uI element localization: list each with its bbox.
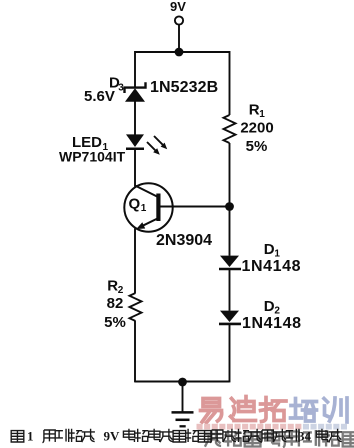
node: base junction dot on right rail (225, 202, 234, 211)
resistor R1 zigzag (224, 115, 236, 143)
wire: ground stem (182, 382, 184, 412)
svg-text:82: 82 (107, 295, 124, 312)
diode D1 (1N4148) (219, 256, 241, 269)
svg-text:34: 34 (298, 429, 312, 444)
wire: base lead from Q1 to right rail (161, 206, 230, 208)
svg-text:D: D (264, 298, 275, 315)
svg-text:5%: 5% (104, 314, 126, 331)
ground (172, 412, 194, 426)
wire: left branch vertical segments (134, 51, 136, 382)
svg-text:1: 1 (141, 203, 147, 214)
svg-text:1N4148: 1N4148 (242, 258, 302, 275)
zener diode D3 (1N5232B) (125, 82, 146, 102)
LED1 (WP7104IT) (126, 134, 167, 154)
wire: right branch vertical segments (229, 51, 231, 382)
resistor R2 zigzag (130, 293, 142, 321)
watermark gray slogan row (205, 430, 354, 447)
svg-text:1N5232B: 1N5232B (150, 79, 218, 96)
transistor Q1 (2N3904) (124, 183, 172, 231)
wire: bottom rail (135, 381, 230, 383)
watermark big text 易迪拓培训 (201, 397, 348, 423)
svg-text:WP7104IT: WP7104IT (59, 149, 126, 165)
watermark char 易 (201, 399, 222, 423)
watermark char 拓 (261, 398, 287, 422)
svg-text:1N4148: 1N4148 (242, 315, 302, 332)
node: top junction dot (175, 48, 184, 57)
svg-text:1: 1 (27, 429, 34, 444)
node: bottom junction dot (178, 378, 187, 387)
svg-text:R: R (249, 101, 260, 118)
svg-text:9V: 9V (104, 429, 121, 444)
svg-text:5.6V: 5.6V (84, 88, 115, 105)
svg-text:D: D (264, 241, 275, 258)
caption row (11, 429, 342, 443)
watermark small pink row (197, 424, 348, 430)
svg-text:Q: Q (129, 195, 141, 212)
svg-text:3: 3 (118, 82, 124, 93)
svg-text:9V: 9V (170, 0, 186, 14)
watermark char 迪 (231, 397, 256, 421)
svg-text:2N3904: 2N3904 (156, 232, 212, 249)
svg-text:5%: 5% (246, 138, 268, 155)
diode D2 (1N4148) (219, 311, 241, 324)
svg-text:R: R (107, 277, 118, 294)
watermark char 培 (291, 399, 317, 422)
watermark char 训 (324, 398, 347, 422)
svg-text:1: 1 (259, 109, 265, 120)
wire: top feed stem from 9V terminal to top rail (178, 25, 180, 53)
svg-text:2200: 2200 (240, 120, 273, 137)
node: 9V terminal circle (175, 16, 183, 24)
wire: top rail (135, 51, 230, 53)
